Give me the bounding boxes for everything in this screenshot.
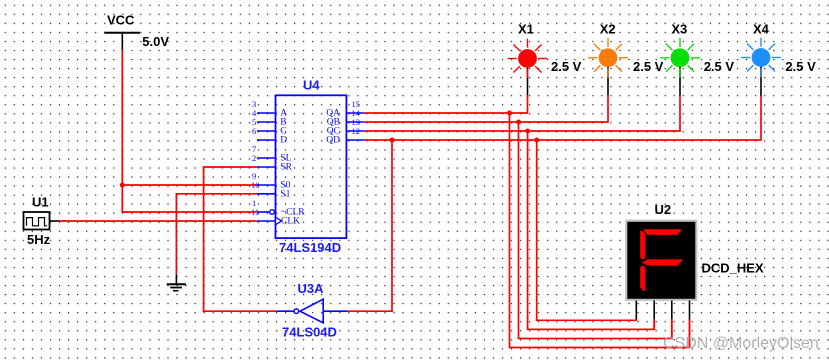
LED probe X2	[588, 22, 663, 96]
svg-text:CSDN @MorleyOlsen: CSDN @MorleyOlsen	[663, 335, 819, 352]
svg-text:SR: SR	[280, 163, 292, 173]
svg-text:X4: X4	[753, 22, 770, 37]
pin SL (7)	[252, 144, 292, 164]
pin QD (12)	[326, 126, 364, 146]
pin D (6)	[252, 126, 287, 146]
wire S1 to ground	[176, 194, 257, 274]
svg-text:10: 10	[251, 180, 260, 190]
junction QA branch	[507, 111, 512, 116]
display pin 1	[635, 301, 637, 320]
wire QA branch to U2 pin4	[510, 113, 690, 348]
wire QC branch to U2 pin2	[528, 131, 655, 329]
wire QA to X1	[365, 95, 528, 113]
junction QB branch	[516, 120, 521, 125]
junction QC branch	[525, 129, 530, 134]
pin QB (14)	[327, 108, 365, 128]
wire SR to inverter output	[204, 167, 277, 311]
power VCC symbol	[104, 13, 169, 50]
wire VCC vertical to S0/~CLR	[122, 50, 258, 213]
svg-text:2: 2	[252, 153, 256, 163]
LED probe X3	[660, 22, 734, 97]
svg-text:QD: QD	[326, 136, 340, 146]
wire QC to X3	[365, 96, 680, 131]
pin QA (15)	[326, 99, 364, 119]
svg-text:6: 6	[252, 126, 256, 136]
pin QC (13)	[327, 117, 365, 137]
svg-text:X3: X3	[671, 22, 687, 37]
pin S1 (10)	[251, 180, 291, 200]
pin B (4)	[252, 108, 287, 128]
svg-text:D: D	[280, 136, 287, 146]
clock source U1	[24, 194, 60, 247]
svg-text:2.5 V: 2.5 V	[633, 59, 664, 74]
pin A (3)	[252, 99, 287, 119]
svg-text:U3A: U3A	[298, 281, 325, 296]
segment A top	[644, 229, 681, 235]
pin C (5)	[252, 117, 287, 137]
svg-text:U2: U2	[655, 202, 672, 217]
svg-text:2.5 V: 2.5 V	[551, 59, 582, 74]
segment F upper-left	[640, 231, 645, 260]
svg-text:11: 11	[251, 207, 259, 217]
junction QD branch	[534, 138, 539, 143]
pin S0 (9)	[252, 171, 291, 191]
junction QD/inverter	[390, 138, 395, 143]
svg-text:12: 12	[352, 126, 361, 136]
svg-text:CLK: CLK	[281, 217, 300, 227]
svg-text:5.0V: 5.0V	[142, 34, 169, 49]
display U2 DCD_HEX	[625, 202, 764, 348]
display pin 3	[671, 301, 673, 320]
wire QD branch to U2 pin1	[537, 140, 637, 320]
svg-text:X2: X2	[600, 22, 616, 37]
svg-text:U4: U4	[303, 77, 320, 92]
wire QB branch to U2 pin3	[519, 122, 672, 339]
svg-text:DCD_HEX: DCD_HEX	[702, 261, 764, 276]
segment E lower-left	[640, 265, 645, 291]
svg-text:74LS194D: 74LS194D	[279, 240, 341, 255]
wire QD to X4	[365, 96, 761, 140]
svg-text:U1: U1	[32, 194, 49, 209]
display pin 4	[689, 301, 691, 320]
chip U4 74LS194D body	[276, 77, 347, 255]
svg-text:74LS04D: 74LS04D	[282, 325, 337, 340]
svg-text:S1: S1	[280, 190, 290, 200]
wire QB to X2	[365, 96, 608, 123]
pin ~CLR (1) with bubble	[252, 198, 305, 218]
LED probe X1	[508, 22, 582, 96]
svg-text:2.5 V: 2.5 V	[704, 59, 735, 74]
junction VCC/S0	[120, 183, 125, 188]
ground	[167, 274, 186, 290]
wire QD to inverter input	[348, 140, 393, 311]
op-amp U3A inverter 74LS04D	[276, 281, 347, 340]
svg-text:5Hz: 5Hz	[27, 232, 51, 247]
svg-text:X1: X1	[518, 22, 534, 37]
svg-text:VCC: VCC	[107, 13, 135, 28]
wire U1 to CLK	[59, 220, 257, 222]
segment G middle	[642, 259, 683, 265]
display pin 2	[653, 301, 655, 320]
pin SR (2)	[252, 153, 293, 173]
svg-text:2.5 V: 2.5 V	[785, 59, 816, 74]
pin CLK (11) with edge triangle	[251, 207, 300, 227]
LED probe X4	[741, 22, 816, 97]
